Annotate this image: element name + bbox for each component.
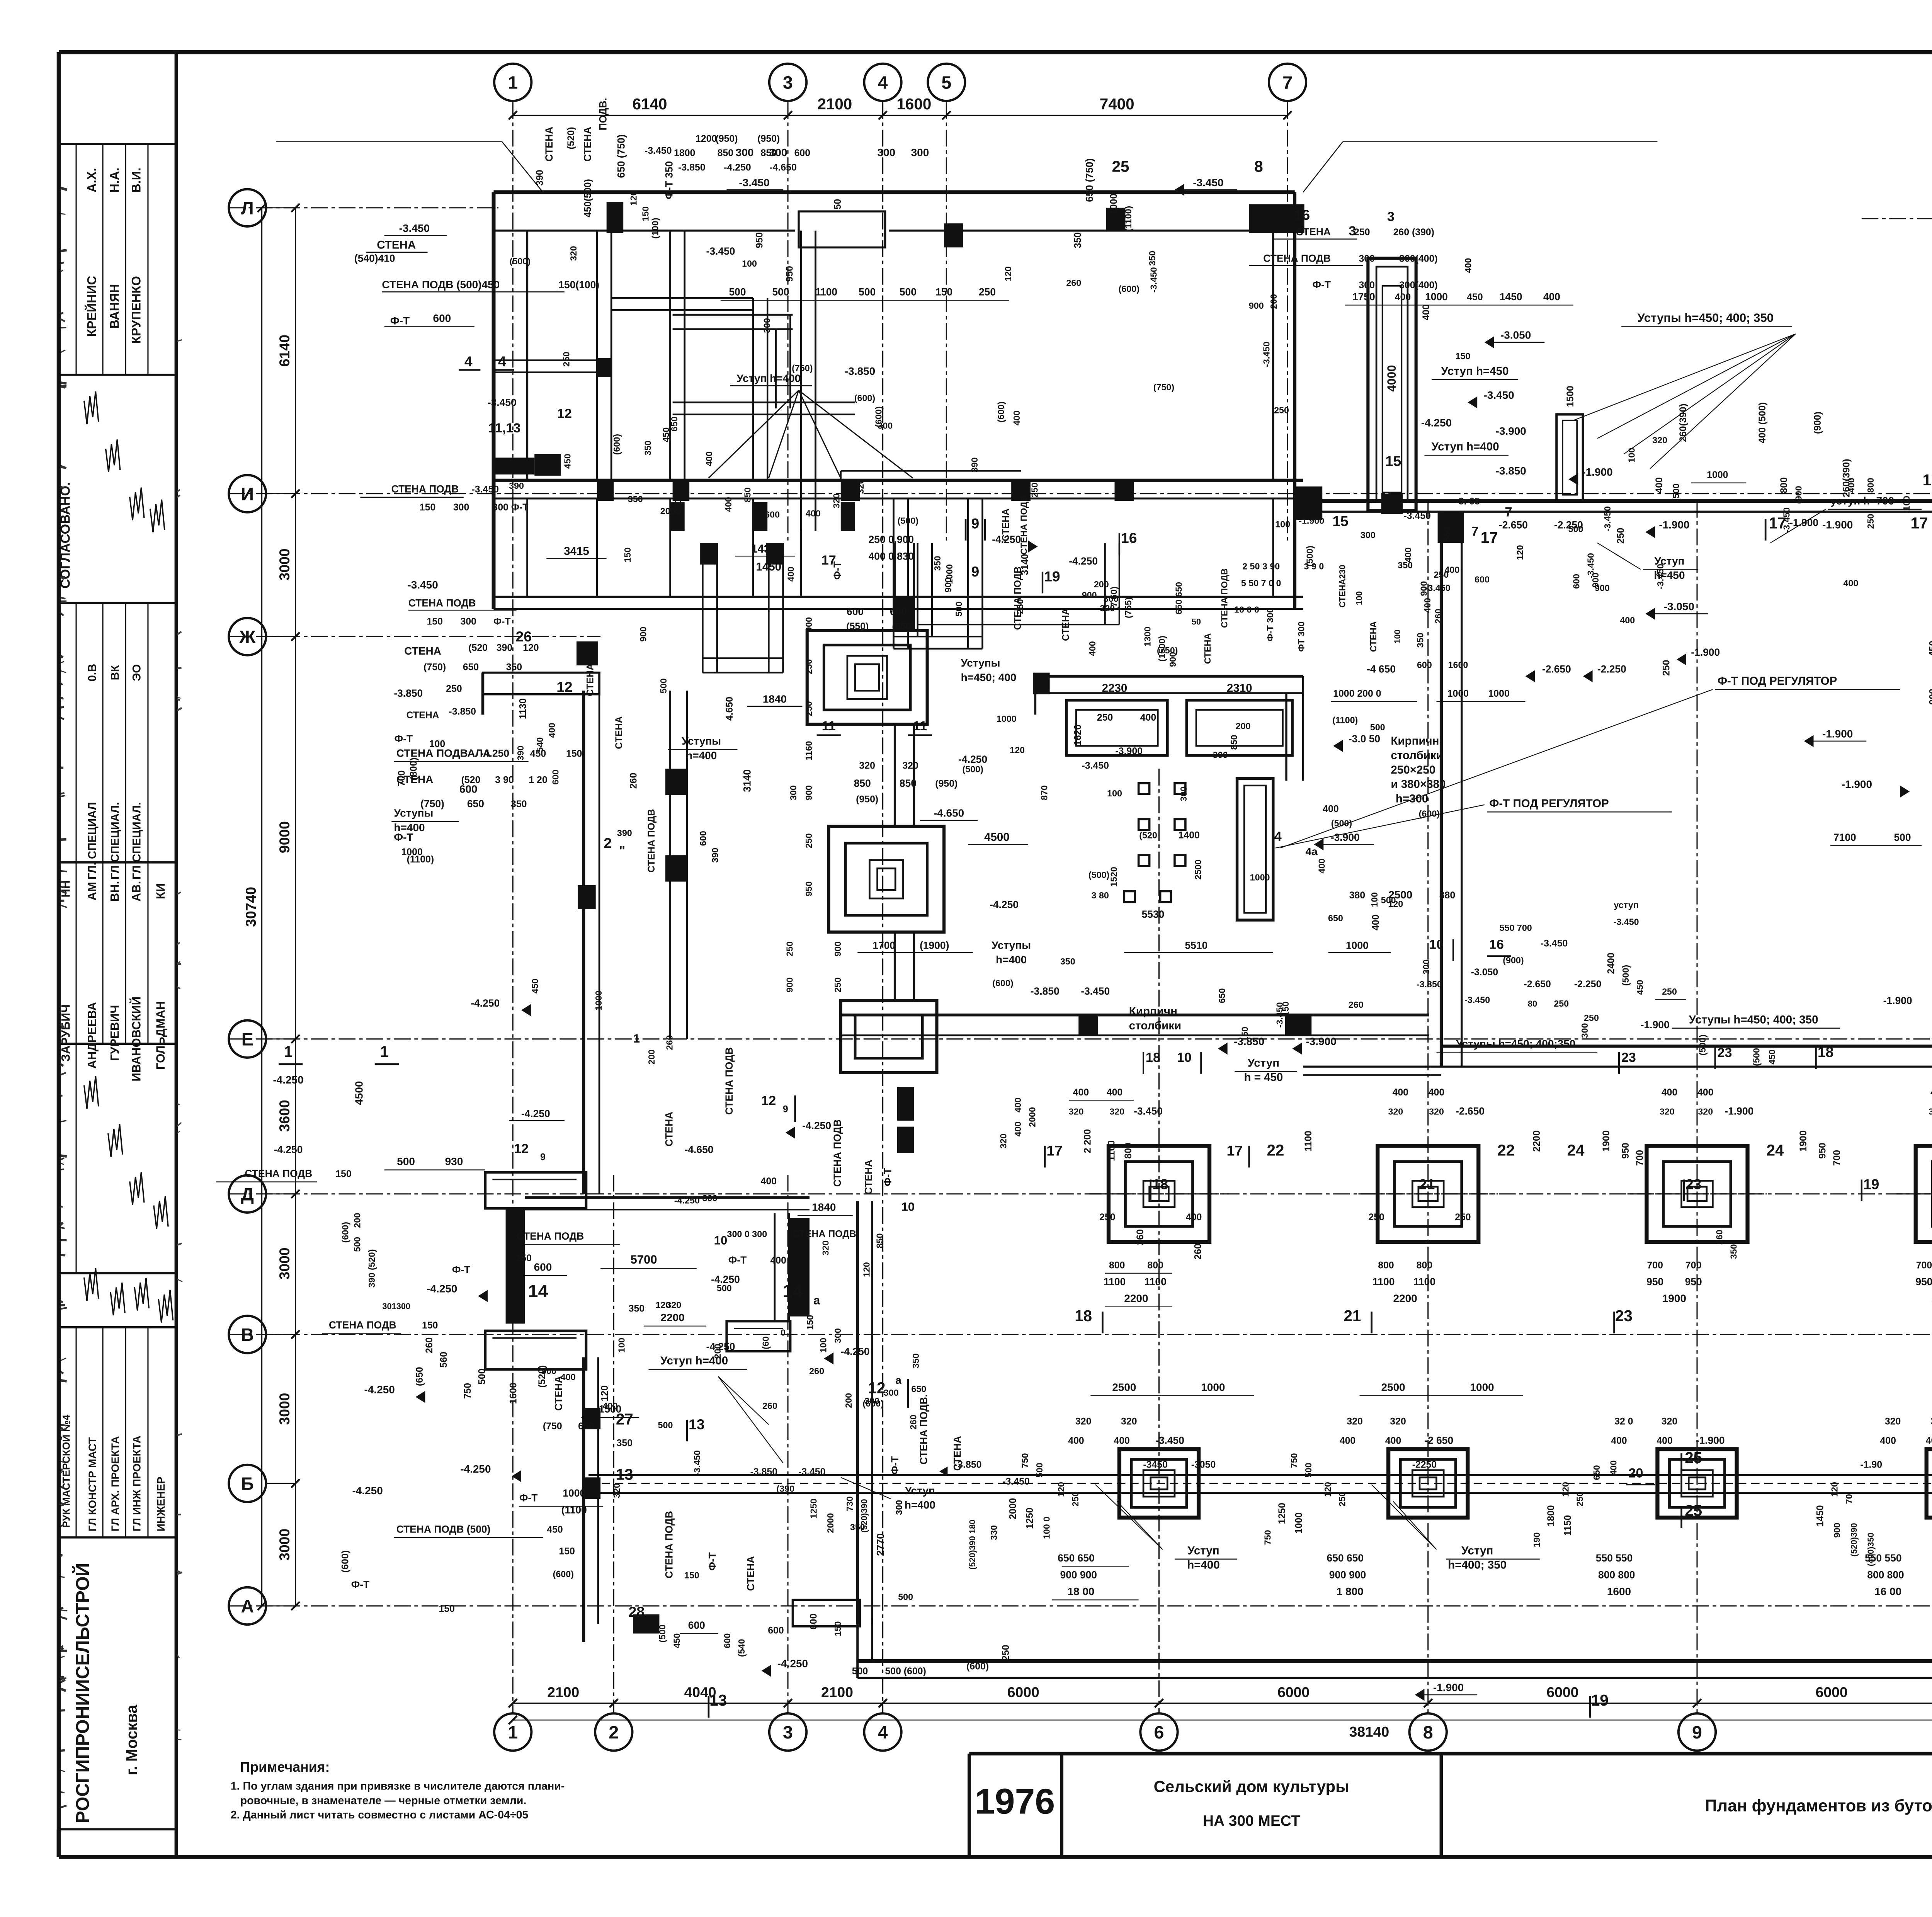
- svg-text:650: 650: [1217, 988, 1227, 1003]
- svg-text:21: 21: [1344, 1307, 1361, 1325]
- svg-text:-4.650: -4.650: [934, 807, 964, 819]
- svg-text:0.В: 0.В: [86, 664, 99, 682]
- svg-text:650: 650: [1592, 1465, 1602, 1480]
- svg-text:СТЕНА ПОДВ: СТЕНА ПОДВ: [329, 1319, 396, 1331]
- svg-text:260: 260: [628, 773, 639, 789]
- svg-text:12: 12: [761, 1094, 776, 1108]
- svg-text:Уступы h=450; 400;350: Уступы h=450; 400;350: [1456, 1038, 1575, 1050]
- svg-text:Кирпичн: Кирпичн: [1129, 1005, 1177, 1018]
- svg-text:(500): (500): [1304, 546, 1315, 566]
- svg-text:400: 400: [561, 1372, 576, 1382]
- svg-text:250: 250: [1615, 528, 1626, 544]
- svg-text:50: 50: [832, 199, 843, 210]
- svg-text:9: 9: [783, 1104, 788, 1114]
- wall on axis Е: [841, 1014, 1429, 1015]
- svg-text:СТЕНА: СТЕНА: [406, 710, 439, 721]
- svg-text:1450: 1450: [1500, 291, 1522, 303]
- svg-text:18: 18: [1146, 1050, 1160, 1065]
- building walls: top-left wing: [494, 192, 1295, 193]
- svg-text:1840: 1840: [812, 1201, 836, 1213]
- svg-text:(650): (650): [892, 621, 914, 632]
- svg-text:3000: 3000: [276, 1393, 293, 1425]
- svg-text:150: 150: [422, 1320, 438, 1331]
- svg-text:План фундаментов из бутобетона: План фундаментов из бутобетона.: [1705, 1796, 1932, 1815]
- svg-text:250: 250: [1575, 1492, 1585, 1507]
- svg-text:Ф-Т: Ф-Т: [394, 831, 413, 843]
- svg-text:300: 300: [1213, 750, 1228, 760]
- svg-text:2100: 2100: [817, 95, 852, 113]
- svg-text:-3.450: -3.450: [1483, 389, 1514, 401]
- svg-text:1000: 1000: [594, 990, 604, 1010]
- svg-text:Уступы: Уступы: [682, 735, 721, 747]
- svg-text:1400: 1400: [1179, 830, 1200, 841]
- svg-text:-1.900: -1.900: [1641, 1019, 1670, 1031]
- svg-text:14: 14: [528, 1281, 548, 1301]
- svg-text:АМ: АМ: [85, 882, 99, 900]
- svg-text:350: 350: [1729, 1244, 1739, 1259]
- svg-text:2400: 2400: [1606, 953, 1617, 974]
- svg-text:800 800: 800 800: [1867, 1569, 1904, 1580]
- svg-text:-4.250: -4.250: [460, 1463, 491, 1475]
- svg-text:-3.450: -3.450: [1781, 507, 1791, 533]
- svg-text:15: 15: [1385, 453, 1401, 469]
- svg-text:Уступ: Уступ: [905, 1485, 935, 1497]
- svg-text:500: 500: [898, 1592, 913, 1602]
- svg-text:500: 500: [658, 678, 668, 693]
- interior walls of top-left wing: [801, 231, 801, 531]
- svg-text:ИНЖЕНЕР: ИНЖЕНЕР: [155, 1476, 167, 1531]
- svg-text:2000: 2000: [825, 1513, 835, 1533]
- svg-text:АВ.: АВ.: [130, 881, 143, 902]
- svg-text:320: 320: [1929, 1107, 1932, 1117]
- svg-text:-4.250: -4.250: [992, 534, 1021, 545]
- svg-text:200: 200: [352, 1213, 362, 1228]
- svg-text:650: 650: [467, 798, 484, 810]
- svg-text:750: 750: [1263, 1530, 1273, 1545]
- svg-text:200: 200: [1269, 294, 1279, 309]
- svg-text:-4.250: -4.250: [802, 1120, 831, 1131]
- svg-text:(600): (600): [996, 401, 1006, 422]
- svg-text:100: 100: [616, 1338, 626, 1353]
- svg-text:-3.850: -3.850: [954, 1459, 981, 1470]
- svg-text:-1.900: -1.900: [1691, 646, 1720, 658]
- svg-text:900: 900: [541, 1366, 556, 1376]
- svg-text:400: 400: [1656, 1435, 1672, 1446]
- svg-text:9: 9: [1692, 1722, 1702, 1742]
- svg-text:(1100): (1100): [1332, 715, 1358, 725]
- svg-text:300: 300: [1359, 280, 1374, 291]
- svg-text:8: 8: [1254, 157, 1263, 175]
- svg-text:400: 400: [723, 497, 733, 512]
- svg-text:-3.850: -3.850: [394, 687, 423, 699]
- svg-text:250: 250: [1099, 1212, 1115, 1223]
- svg-text:-4.650: -4.650: [769, 162, 796, 173]
- svg-text:400: 400: [1930, 1087, 1932, 1098]
- svg-text:260: 260: [908, 1415, 918, 1430]
- walls: center-left: [583, 691, 584, 1194]
- svg-text:(540: (540: [736, 1639, 747, 1657]
- svg-text:1000 200 0: 1000 200 0: [1333, 688, 1381, 699]
- svg-text:350: 350: [1398, 560, 1413, 570]
- svg-text:Уступ h=450: Уступ h=450: [1441, 365, 1509, 378]
- svg-text:1250: 1250: [809, 1499, 819, 1519]
- svg-text:СТЕНА ПОДВ (500): СТЕНА ПОДВ (500): [396, 1523, 491, 1535]
- svg-text:СТЕНА ПОДВ: СТЕНА ПОДВ: [663, 1511, 675, 1579]
- svg-text:(600): (600): [340, 1222, 350, 1243]
- svg-text:СТЕНА ПОДВ: СТЕНА ПОДВ: [1019, 495, 1029, 555]
- svg-text:(500: (500: [1752, 1048, 1762, 1066]
- svg-text:500: 500: [954, 602, 964, 617]
- svg-text:100: 100: [1107, 788, 1122, 798]
- svg-text:-4.250: -4.250: [724, 162, 751, 173]
- svg-text:700: 700: [1916, 1260, 1932, 1271]
- svg-text:900: 900: [1082, 590, 1097, 600]
- svg-text:1100: 1100: [1104, 1276, 1126, 1288]
- svg-text:900 900: 900 900: [1060, 1569, 1097, 1580]
- svg-text:А: А: [241, 1596, 254, 1616]
- svg-text:1000: 1000: [1109, 194, 1119, 215]
- svg-text:(500: (500: [657, 1624, 667, 1643]
- svg-text:h=400: h=400: [1187, 1559, 1220, 1572]
- svg-text:450: 450: [530, 748, 546, 759]
- svg-text:400: 400: [547, 723, 557, 738]
- svg-text:400 0.830: 400 0.830: [869, 551, 914, 562]
- svg-text:-3.450: -3.450: [1155, 1434, 1184, 1446]
- svg-text:3000: 3000: [276, 1529, 293, 1561]
- svg-text:ГОЛЬДМАН: ГОЛЬДМАН: [154, 1001, 167, 1070]
- svg-text:2770: 2770: [875, 1533, 886, 1556]
- svg-text:400: 400: [1316, 859, 1327, 874]
- svg-text:120: 120: [1515, 545, 1525, 560]
- svg-text:260: 260: [1349, 1000, 1364, 1010]
- svg-text:400: 400: [1087, 641, 1097, 656]
- svg-text:-3.050: -3.050: [1500, 329, 1531, 341]
- svg-text:1130: 1130: [517, 698, 528, 719]
- svg-text:ЭО: ЭО: [131, 664, 143, 681]
- svg-text:400: 400: [1421, 304, 1432, 320]
- svg-text:СТЕНА ПОДВАЛА: СТЕНА ПОДВАЛА: [396, 747, 491, 759]
- svg-text:900: 900: [833, 941, 843, 956]
- svg-text:500 (600): 500 (600): [885, 1666, 926, 1677]
- svg-text:600: 600: [847, 606, 864, 617]
- svg-text:950: 950: [1620, 1143, 1631, 1158]
- svg-text:2 50 3 90: 2 50 3 90: [1242, 561, 1280, 571]
- svg-text:150: 150: [515, 1253, 531, 1264]
- svg-text:3000: 3000: [276, 1248, 293, 1280]
- svg-text:650: 650: [1442, 527, 1452, 542]
- svg-text:-1.900: -1.900: [1883, 995, 1912, 1007]
- svg-text:23: 23: [1615, 1307, 1633, 1325]
- svg-text:190: 190: [1532, 1533, 1542, 1548]
- svg-text:-3.450: -3.450: [692, 1450, 702, 1476]
- svg-text:-1.900: -1.900: [1299, 515, 1324, 526]
- svg-text:СТЕНА ПОДВ: СТЕНА ПОДВ: [391, 483, 459, 495]
- svg-text:800 800: 800 800: [1598, 1569, 1635, 1580]
- column footings rows Д and Б: [1109, 1146, 1209, 1242]
- svg-text:600: 600: [534, 1261, 552, 1273]
- main hall walls: [1441, 512, 1442, 1067]
- svg-text:(950): (950): [715, 133, 738, 144]
- svg-text:12: 12: [556, 679, 572, 695]
- svg-text:3: 3: [783, 1722, 793, 1742]
- svg-text:850: 850: [1229, 735, 1239, 750]
- svg-text:23: 23: [1621, 1050, 1636, 1065]
- svg-text:300: 300: [1359, 253, 1374, 264]
- svg-text:РОСГИПРОНИИСЕЛЬСТРОЙ: РОСГИПРОНИИСЕЛЬСТРОЙ: [72, 1563, 93, 1823]
- svg-text:120: 120: [628, 191, 638, 206]
- svg-text:18: 18: [1818, 1044, 1833, 1060]
- svg-text:800: 800: [1417, 1260, 1432, 1271]
- svg-text:-2.650: -2.650: [1542, 663, 1571, 675]
- svg-text:21: 21: [1419, 1176, 1435, 1192]
- svg-text:500: 500: [352, 1237, 362, 1252]
- svg-text:СТЕНА ПОДВ: СТЕНА ПОДВ: [1219, 568, 1230, 628]
- svg-text:(750): (750): [1153, 382, 1174, 392]
- svg-text:СТЕНА: СТЕНА: [614, 716, 624, 749]
- svg-text:Ф-Т ПОД РЕГУЛЯТОР: Ф-Т ПОД РЕГУЛЯТОР: [1489, 797, 1609, 810]
- svg-text:23: 23: [1685, 1176, 1701, 1192]
- svg-text:600: 600: [550, 770, 560, 785]
- svg-text:150: 150: [420, 502, 435, 513]
- svg-text:Е: Е: [241, 1029, 253, 1050]
- svg-text:Кирпичн: Кирпичн: [1391, 735, 1439, 747]
- svg-text:Уступ: Уступ: [1248, 1056, 1279, 1069]
- svg-text:500: 500: [1381, 895, 1396, 905]
- svg-text:12: 12: [514, 1141, 529, 1156]
- svg-text:11: 11: [913, 719, 927, 733]
- svg-text:СТЕНА: СТЕНА: [377, 238, 416, 251]
- svg-text:7: 7: [1471, 524, 1478, 539]
- svg-text:4: 4: [878, 73, 888, 93]
- svg-text:500: 500: [477, 1368, 488, 1384]
- svg-text:1160: 1160: [804, 741, 814, 760]
- svg-text:100: 100: [1369, 892, 1379, 907]
- svg-text:Ф-Т: Ф-Т: [707, 1552, 718, 1570]
- svg-text:320: 320: [1429, 1107, 1444, 1117]
- svg-text:-3.0 50: -3.0 50: [1349, 733, 1380, 745]
- svg-text:-1.90: -1.90: [1860, 1459, 1882, 1470]
- svg-text:-4.250: -4.250: [364, 1384, 395, 1396]
- svg-text:150: 150: [439, 1603, 455, 1614]
- svg-text:2200: 2200: [1124, 1293, 1148, 1305]
- svg-text:СТЕНА ПОДВ: СТЕНА ПОДВ: [1012, 566, 1023, 630]
- svg-text:(1900): (1900): [920, 940, 949, 951]
- svg-text:1: 1: [508, 1722, 518, 1742]
- svg-text:1976: 1976: [975, 1781, 1055, 1822]
- svg-text:Н.А.: Н.А.: [107, 168, 122, 193]
- svg-text:1200: 1200: [696, 133, 717, 144]
- svg-text:320: 320: [1390, 1416, 1406, 1427]
- svg-text:(900): (900): [1503, 955, 1524, 965]
- svg-text:4500: 4500: [984, 831, 1010, 844]
- svg-text:1800: 1800: [674, 148, 695, 158]
- svg-text:1600: 1600: [1448, 660, 1468, 670]
- svg-text:320: 320: [1347, 1416, 1362, 1427]
- svg-text:450(500): 450(500): [582, 179, 593, 218]
- svg-text:3: 3: [783, 73, 793, 93]
- svg-text:250: 250: [1455, 1212, 1471, 1223]
- svg-text:2500: 2500: [1193, 860, 1203, 880]
- svg-text:-3.450: -3.450: [1655, 564, 1665, 589]
- svg-text:(500): (500): [898, 515, 918, 526]
- svg-text:h=450; 400: h=450; 400: [961, 671, 1017, 683]
- svg-text:13: 13: [689, 1416, 704, 1432]
- svg-text:1800: 1800: [1546, 1505, 1556, 1526]
- svg-text:АНДРЕЕВА: АНДРЕЕВА: [85, 1002, 99, 1069]
- svg-text:300: 300: [833, 1328, 843, 1343]
- svg-text:400: 400: [806, 509, 821, 519]
- svg-text:13: 13: [616, 1466, 633, 1483]
- svg-text:2000: 2000: [1008, 1498, 1019, 1519]
- svg-text:3000: 3000: [276, 548, 293, 580]
- svg-text:300: 300: [1580, 1023, 1590, 1038]
- svg-text:(520: (520: [1139, 830, 1157, 840]
- svg-text:300 0 300: 300 0 300: [727, 1229, 767, 1239]
- svg-text:Ф-Т: Ф-Т: [728, 1254, 747, 1266]
- svg-text:32 0: 32 0: [1614, 1416, 1633, 1427]
- svg-text:6: 6: [1154, 1722, 1164, 1742]
- svg-text:(500): (500): [1331, 818, 1352, 828]
- svg-text:3600: 3600: [276, 1100, 293, 1132]
- svg-text:17: 17: [821, 553, 836, 568]
- svg-text:6000: 6000: [1546, 1684, 1578, 1700]
- svg-text:1000: 1000: [1250, 872, 1270, 882]
- svg-text:950: 950: [1915, 1276, 1932, 1288]
- svg-text:320: 320: [1698, 1107, 1713, 1117]
- svg-text:(60: (60: [760, 1336, 770, 1349]
- svg-text:(900: (900: [1793, 486, 1803, 504]
- svg-text:СТЕНА: СТЕНА: [1296, 226, 1331, 238]
- svg-text:5530: 5530: [1142, 908, 1165, 920]
- svg-text:390: 390: [969, 458, 980, 473]
- svg-text:-3.450: -3.450: [1134, 1106, 1163, 1117]
- svg-text:400: 400: [1697, 1087, 1713, 1098]
- svg-text:8: 8: [1423, 1722, 1433, 1742]
- svg-text:500: 500: [852, 1666, 868, 1677]
- svg-text:-1.900: -1.900: [1725, 1106, 1753, 1117]
- svg-text:650: 650: [463, 662, 479, 672]
- svg-text:-2.250: -2.250: [1597, 663, 1626, 675]
- svg-text:7: 7: [1505, 505, 1512, 520]
- svg-text:-4.250: -4.250: [471, 997, 500, 1009]
- svg-text:150: 150: [1455, 351, 1470, 361]
- svg-text:500: 500: [1894, 832, 1911, 843]
- svg-text:100: 100: [818, 1338, 828, 1353]
- svg-text:Ф-Т: Ф-Т: [351, 1579, 369, 1590]
- svg-text:СТЕНА ПОДВ: СТЕНА ПОДВ: [646, 809, 657, 873]
- svg-text:3 90: 3 90: [495, 775, 514, 786]
- svg-text:-4.250: -4.250: [777, 1657, 808, 1669]
- svg-text:320: 320: [859, 760, 875, 771]
- svg-text:ГЛ. СПЕЦИАЛ: ГЛ. СПЕЦИАЛ: [86, 802, 99, 879]
- svg-text:СТЕНА ПОДВ: СТЕНА ПОДВ: [408, 597, 476, 609]
- svg-text:(600): (600): [340, 1550, 350, 1573]
- svg-text:(540)410: (540)410: [354, 253, 395, 264]
- svg-text:24: 24: [1567, 1141, 1585, 1159]
- svg-text:300 Ф-Т: 300 Ф-Т: [492, 502, 528, 513]
- svg-text:850: 850: [718, 148, 733, 158]
- svg-text:320: 320: [998, 1134, 1009, 1149]
- svg-text:СТЕНА: СТЕНА: [543, 127, 555, 162]
- svg-text:2. Данный лист читать совместн: 2. Данный лист читать совместно с листам…: [231, 1809, 529, 1821]
- svg-text:столбики: столбики: [1391, 749, 1443, 762]
- svg-text:Б: Б: [241, 1474, 254, 1494]
- svg-text:Ф-Т: Ф-Т: [452, 1264, 470, 1276]
- svg-text:11: 11: [822, 719, 836, 733]
- svg-text:-3. 05: -3. 05: [1456, 496, 1480, 507]
- svg-text:400: 400: [1114, 1435, 1129, 1446]
- svg-text:(600): (600): [1419, 809, 1440, 819]
- svg-text:400: 400: [1611, 1435, 1627, 1446]
- svg-text:ГЛ СПЕЦИАЛ.: ГЛ СПЕЦИАЛ.: [109, 802, 122, 879]
- svg-text:320: 320: [1930, 1416, 1932, 1427]
- svg-text:h = 450: h = 450: [1244, 1071, 1283, 1084]
- svg-text:1000: 1000: [563, 1487, 585, 1499]
- svg-text:1100: 1100: [815, 286, 837, 298]
- svg-text:650: 650: [911, 1384, 926, 1394]
- svg-text:ИВАНОВСКИЙ: ИВАНОВСКИЙ: [129, 997, 143, 1082]
- svg-text:18 00: 18 00: [1067, 1585, 1094, 1597]
- svg-text:1000: 1000: [1707, 469, 1728, 480]
- svg-text:390 (520): 390 (520): [367, 1249, 377, 1288]
- svg-text:400: 400: [1012, 410, 1022, 425]
- svg-text:100: 100: [1354, 591, 1364, 605]
- svg-text:600: 600: [890, 606, 907, 617]
- left approval strip (СОГЛАСОВАНО): [176, 52, 177, 1857]
- svg-text:1100: 1100: [1413, 1276, 1435, 1288]
- svg-text:400: 400: [786, 566, 796, 582]
- svg-text:2 200: 2 200: [1082, 1129, 1093, 1153]
- svg-text:400: 400: [1370, 915, 1381, 930]
- svg-text:(500): (500): [1088, 870, 1109, 880]
- svg-text:(600): (600): [1119, 284, 1139, 294]
- svg-text:3: 3: [1349, 224, 1356, 238]
- svg-text:400: 400: [1073, 1087, 1089, 1098]
- svg-text:400: 400: [1429, 1087, 1444, 1098]
- svg-text:25: 25: [1685, 1502, 1702, 1519]
- svg-text:150: 150: [935, 286, 952, 298]
- svg-text:Ф-Т: Ф-Т: [395, 733, 413, 745]
- main dimension lines: [513, 115, 1287, 116]
- svg-text:100: 100: [1275, 519, 1290, 529]
- svg-text:17: 17: [1481, 529, 1498, 546]
- svg-text:1: 1: [633, 1032, 640, 1045]
- svg-text:330: 330: [989, 1525, 999, 1540]
- svg-text:(750): (750): [423, 662, 446, 672]
- svg-text:Ф-Т 300: Ф-Т 300: [1265, 608, 1275, 641]
- svg-text:2200: 2200: [1531, 1130, 1542, 1152]
- svg-text:300(400): 300(400): [1399, 280, 1438, 291]
- svg-text:100 0: 100 0: [1042, 1517, 1052, 1539]
- svg-text:120: 120: [1560, 1482, 1570, 1497]
- svg-text:320: 320: [1121, 1416, 1137, 1427]
- svg-text:600: 600: [794, 148, 810, 158]
- svg-text:Ф-Т: Ф-Т: [493, 616, 511, 627]
- svg-text:1000: 1000: [1201, 1381, 1225, 1393]
- svg-text:950: 950: [1685, 1276, 1702, 1288]
- svg-text:18: 18: [1152, 1176, 1168, 1192]
- svg-text:120: 120: [1323, 1482, 1333, 1497]
- svg-text:17: 17: [1923, 471, 1932, 489]
- svg-text:СТЕНА ПОДВ: СТЕНА ПОДВ: [517, 1230, 584, 1242]
- svg-text:260(390): 260(390): [1841, 459, 1852, 497]
- svg-text:250: 250: [1584, 1013, 1599, 1023]
- svg-text:2500: 2500: [1381, 1381, 1405, 1393]
- svg-text:250: 250: [804, 659, 814, 674]
- svg-text:3415: 3415: [564, 545, 589, 558]
- svg-text:870: 870: [1039, 785, 1049, 800]
- svg-text:450: 450: [672, 1633, 682, 1648]
